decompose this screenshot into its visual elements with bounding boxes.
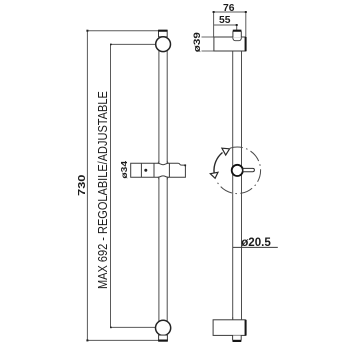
front view rod	[159, 38, 167, 322]
dimension 76 corner dots	[213, 11, 247, 13]
side view pivot lever	[243, 168, 254, 171]
diameter 39 extension lines	[202, 37, 214, 51]
svg-text:55: 55	[219, 15, 231, 26]
side view rod shoulder above bottom bracket	[233, 317, 242, 320]
slider rod shoulder top	[158, 161, 169, 164]
dimension 76 line	[214, 12, 246, 37]
side view pivot dashed circle	[217, 147, 261, 194]
front view bottom ball	[156, 320, 171, 335]
dimension 55 corner dots	[236, 24, 238, 26]
dimension 730 corner dots	[86, 30, 88, 342]
svg-text:730: 730	[77, 175, 87, 196]
side view bottom foot	[233, 336, 242, 342]
dimension MAX 692 corner dots	[110, 44, 112, 329]
dimension 730 bracket line	[87, 31, 158, 341]
diameter 20.5 leader line	[233, 246, 278, 248]
slider rod shoulder bottom	[158, 177, 169, 179]
dimension 55 line	[214, 25, 237, 30]
svg-text:ø34: ø34	[120, 161, 129, 179]
svg-text:MAX 692 - REGOLABILE/ADJUSTABL: MAX 692 - REGOLABILE/ADJUSTABLE	[97, 91, 111, 289]
svg-text:76: 76	[223, 3, 235, 14]
side view rod collar under bracket top	[233, 38, 242, 41]
side view pivot knob	[232, 165, 243, 176]
side view rod top cap	[233, 30, 242, 37]
side view rod	[233, 41, 242, 320]
side view top wall bracket	[214, 37, 246, 51]
front view top end cap	[158, 30, 167, 36]
dimension MAX 692 bracket line	[111, 44, 157, 327]
rotation arrowhead top	[222, 148, 230, 155]
slider screw dot	[144, 169, 147, 172]
front view slider block	[131, 163, 186, 177]
side view bottom wall bracket	[213, 320, 246, 336]
rotation arrowhead bottom	[210, 172, 218, 178]
svg-text:ø39: ø39	[193, 32, 203, 52]
front view top ball	[156, 37, 171, 52]
front view bottom end cap	[158, 335, 167, 341]
rotation arrow arc	[214, 153, 223, 173]
